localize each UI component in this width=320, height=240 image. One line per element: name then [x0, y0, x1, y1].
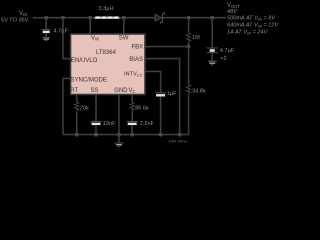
node EN junction [61, 16, 65, 20]
svg-text:20k: 20k [80, 106, 89, 112]
svg-text:48V: 48V [227, 9, 238, 15]
wire INTVCC [145, 71, 161, 92]
svg-text:BIAS: BIAS [129, 57, 143, 63]
node VIN pin junction [88, 16, 92, 20]
label 4.7uF x2 [220, 48, 235, 62]
svg-text:SW: SW [119, 36, 129, 42]
node BIAS ground junction [178, 133, 182, 137]
node SS ground junction [94, 133, 98, 137]
wire FBX [145, 46, 189, 48]
wire SW pin drop [123, 18, 125, 34]
wire SYNC/MODE to ground [63, 79, 70, 135]
inductor L1 3.3uH [95, 16, 119, 19]
svg-text:1M: 1M [192, 35, 200, 41]
ground input cap [42, 37, 50, 41]
wire EN/UVLO [63, 18, 70, 59]
node output cap junction [210, 16, 214, 20]
svg-text:4.7µF: 4.7µF [54, 29, 69, 35]
svg-text:LT8364: LT8364 [96, 50, 117, 56]
svg-text:1µF: 1µF [167, 91, 177, 97]
svg-text:SS: SS [91, 88, 99, 94]
ground output cap [208, 61, 217, 66]
svg-text:VIN: VIN [91, 36, 99, 42]
capacitor CIN 4.7uF [42, 29, 51, 37]
svg-text:VIN: VIN [19, 11, 27, 17]
label VOUT block [227, 3, 279, 36]
svg-text:VC: VC [129, 88, 136, 94]
node FBX junction [187, 45, 191, 49]
svg-text:10nF: 10nF [103, 121, 116, 127]
ground main [115, 135, 124, 147]
svg-text:RT: RT [70, 88, 78, 94]
svg-text:8364 TA01a: 8364 TA01a [169, 140, 188, 144]
wire BIAS [145, 59, 180, 135]
node GND junction [117, 133, 121, 137]
wire top rail diode to VOUT [163, 17, 226, 19]
wire bottom ground rail [63, 134, 189, 136]
svg-text:34.8k: 34.8k [192, 89, 206, 95]
svg-text:640mA AT VIN = 12V: 640mA AT VIN = 12V [227, 23, 279, 29]
resistor R3 20k on RT [75, 95, 79, 135]
svg-text:3.3µH: 3.3µH [99, 6, 114, 12]
wire VIN pin drop [89, 18, 91, 34]
node input cap junction [44, 16, 48, 20]
capacitor C4 10nF on SS [91, 121, 102, 135]
diode D1 schottky [155, 12, 164, 24]
svg-text:FBX: FBX [132, 44, 144, 50]
wire input cap drop [45, 18, 47, 30]
label VIN input [1, 11, 29, 24]
svg-text:4.7µF: 4.7µF [220, 48, 235, 54]
capacitor C3 1uF [155, 92, 166, 134]
resistor R2 34.8k [187, 47, 191, 135]
node RT ground junction [75, 133, 79, 137]
svg-text:GND: GND [114, 88, 128, 94]
capacitor COUT 4.7uF x2 [207, 47, 218, 60]
svg-text:1A AT VIN = 24V: 1A AT VIN = 24V [227, 30, 269, 36]
node 1M junction [187, 16, 191, 20]
node VC ground junction [130, 133, 134, 137]
wire top rail VIN side [33, 17, 155, 19]
svg-text:2.2nF: 2.2nF [140, 121, 155, 127]
svg-text:SYNC/MODE: SYNC/MODE [71, 77, 107, 83]
resistor R1 1M [187, 18, 191, 47]
capacitor C5 2.2nF on VC [127, 121, 138, 135]
op-amp U1 LT8364 block [70, 34, 145, 95]
wire SS drop [95, 95, 97, 121]
svg-text:EN/UVLO: EN/UVLO [71, 58, 98, 64]
resistor R4 86.6k on VC [130, 95, 134, 121]
wire output cap drop [211, 18, 213, 48]
wire GND pin drop [118, 95, 120, 135]
node 1uF ground junction [159, 133, 163, 137]
svg-text:×2: ×2 [220, 56, 226, 62]
svg-text:500mA AT VIN = 8V: 500mA AT VIN = 8V [227, 16, 276, 22]
node SW junction [122, 16, 126, 20]
svg-text:5V TO 36V: 5V TO 36V [1, 18, 29, 24]
svg-text:INTVCC: INTVCC [124, 72, 143, 78]
svg-text:86.6k: 86.6k [135, 106, 149, 112]
